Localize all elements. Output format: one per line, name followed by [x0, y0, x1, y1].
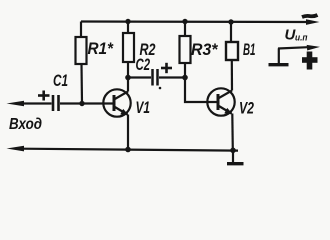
mark above supply arrow	[302, 15, 318, 17]
transistor V2	[207, 88, 234, 115]
common terminal below bottom rail	[232, 150, 234, 162]
svg-text:R1*: R1*	[88, 39, 115, 58]
supply arrow (right end of top rail)	[306, 19, 320, 25]
wire: C1 to V1 base	[60, 102, 113, 104]
svg-text:B1: B1	[243, 40, 256, 59]
capacitor C2	[151, 69, 154, 86]
junction: R3 / C2 / V2 base	[182, 75, 188, 81]
svg-text:C2: C2	[136, 55, 151, 74]
svg-text:R3*: R3*	[191, 40, 219, 59]
junction: V1 collector / R2 / C2	[125, 75, 131, 81]
junction: V1 emitter / bottom rail	[125, 147, 131, 153]
supply common symbol (top right)	[269, 63, 289, 66]
capacitor C1	[52, 95, 55, 111]
wire: V2 emitter to bottom rail	[231, 114, 234, 151]
wire: C2 to R3 junction	[159, 76, 185, 78]
wire: V1 collector	[127, 78, 129, 92]
svg-text:Вход: Вход	[9, 116, 42, 133]
wire: input line	[22, 102, 52, 104]
svg-text:V1: V1	[136, 99, 151, 117]
polarity + of C2	[161, 63, 172, 73]
resistor R3	[182, 19, 187, 24]
resistor R1	[80, 22, 82, 38]
component B1	[228, 19, 233, 24]
resistor R2	[125, 19, 130, 24]
polarity + of supply	[302, 52, 318, 70]
junction: R1/base wire	[79, 101, 84, 106]
wire: V1 emitter to bottom rail	[127, 115, 129, 150]
polarity + of C1	[38, 91, 50, 101]
wire: top supply rail	[81, 20, 307, 23]
bottom-left arrow	[7, 146, 25, 152]
output arrow (supply minus)	[307, 45, 320, 51]
junction: V2 emitter / bottom rail	[230, 148, 236, 154]
svg-text:C1: C1	[53, 71, 68, 90]
wire: bottom rail	[22, 149, 238, 151]
wire: junction down and to V2 base	[185, 78, 217, 103]
wire: common to output arrow	[278, 47, 308, 48]
wire: junction to C2	[128, 76, 151, 78]
svg-text:V2: V2	[239, 100, 254, 118]
svg-text:и.п: и.п	[295, 33, 308, 44]
transistor V1	[103, 89, 130, 116]
stray dot under C2	[159, 87, 162, 90]
input arrow	[7, 101, 25, 107]
